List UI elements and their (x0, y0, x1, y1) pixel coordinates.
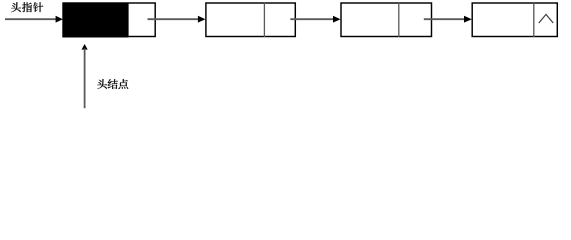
wire: callout arrow pointing up at head node (82, 44, 88, 108)
wire: head-pointer arrow into head node (5, 16, 63, 23)
node 2 divider (263, 3, 265, 37)
label "头指针" (head pointer) (11, 2, 43, 12)
label "头结点" (head node) (97, 79, 128, 89)
node 3 box (341, 3, 432, 37)
NULL marker "^" in node 4 pointer field (539, 14, 553, 23)
wire: node 1 next-pointer to node 2 (148, 16, 206, 23)
wire: node 3 next-pointer to node 4 (424, 16, 472, 23)
node 4 box (tail) (472, 3, 557, 37)
node 1: data field filled black (62, 3, 128, 38)
node 4 divider (533, 3, 535, 37)
node 2 box (206, 3, 295, 37)
wire: node 2 next-pointer to node 3 (290, 16, 340, 23)
node 1: head node box (63, 3, 155, 37)
node 3 divider (398, 3, 400, 37)
